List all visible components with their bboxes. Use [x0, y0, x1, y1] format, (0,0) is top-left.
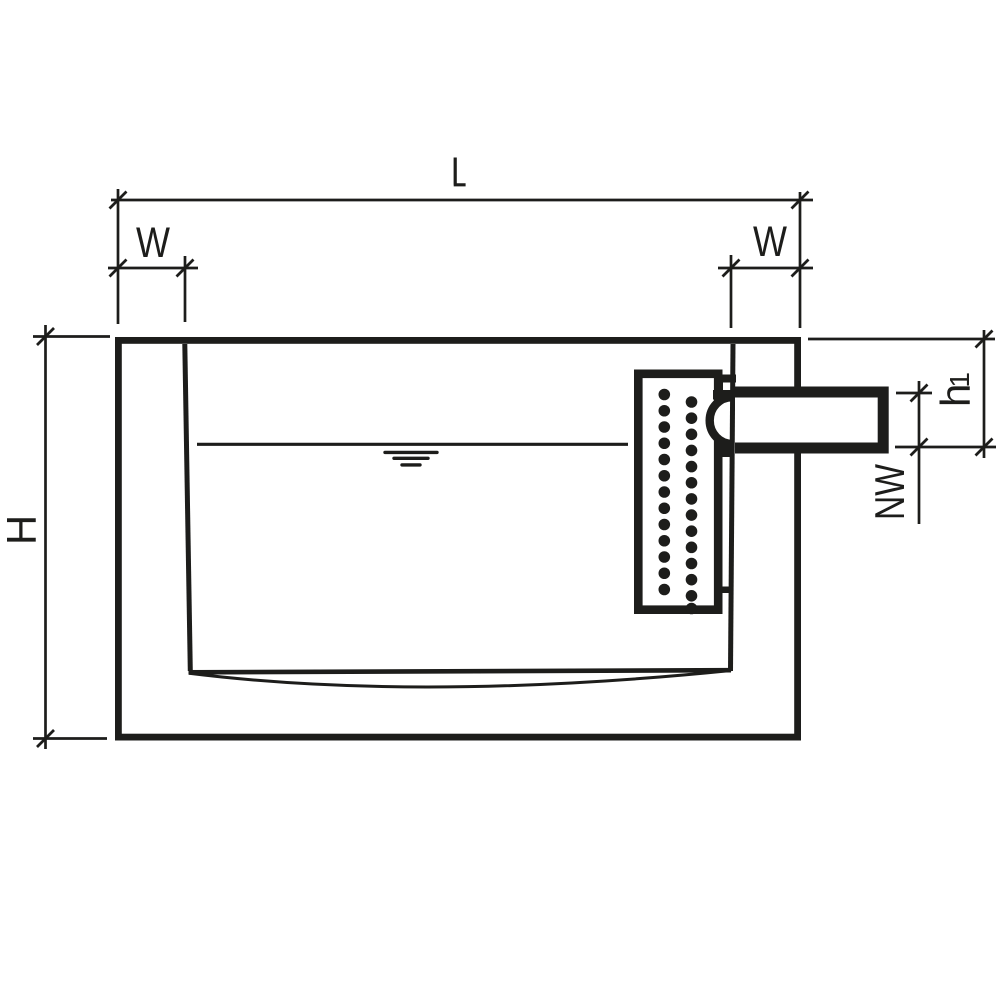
label H	[0, 515, 45, 545]
extension line outer-right top	[799, 192, 802, 328]
dimension W left line	[108, 260, 198, 277]
water level line	[197, 443, 628, 446]
pipe bell mouth	[710, 397, 732, 444]
strainer top bracket	[715, 375, 737, 393]
label L	[454, 158, 466, 185]
extension line outer-left top	[117, 189, 120, 324]
dimension W right line	[718, 260, 813, 277]
strainer lower mounting tab	[723, 587, 730, 594]
inner tank bottom sag curve	[189, 671, 731, 687]
label NW	[866, 464, 913, 520]
pipe socket top junction	[713, 390, 735, 400]
inner tank right wall	[731, 344, 734, 671]
svg-text:h1: h1	[932, 372, 979, 407]
strainer perforation dots left column	[659, 389, 671, 596]
svg-text:W: W	[753, 218, 787, 266]
dimension L line	[110, 192, 814, 209]
svg-text:H: H	[0, 515, 45, 545]
inner tank bottom	[189, 670, 732, 672]
extension line inner-right top	[730, 255, 733, 328]
water level symbol	[385, 452, 437, 465]
dimension NW line	[895, 381, 996, 524]
strainer box	[638, 374, 718, 610]
dimension H line	[33, 325, 110, 749]
outlet pipe	[735, 392, 883, 448]
strainer perforation dots right column	[686, 396, 698, 614]
strainer bottom bracket	[722, 446, 730, 457]
extension line inner-left top	[184, 256, 187, 322]
dimension h1 line	[808, 330, 995, 458]
outer tank shell	[118, 340, 797, 737]
pipe socket bottom junction	[715, 442, 731, 450]
svg-text:NW: NW	[866, 464, 913, 520]
label h1	[932, 372, 979, 407]
inner tank left wall	[185, 344, 191, 671]
svg-text:W: W	[136, 219, 170, 267]
